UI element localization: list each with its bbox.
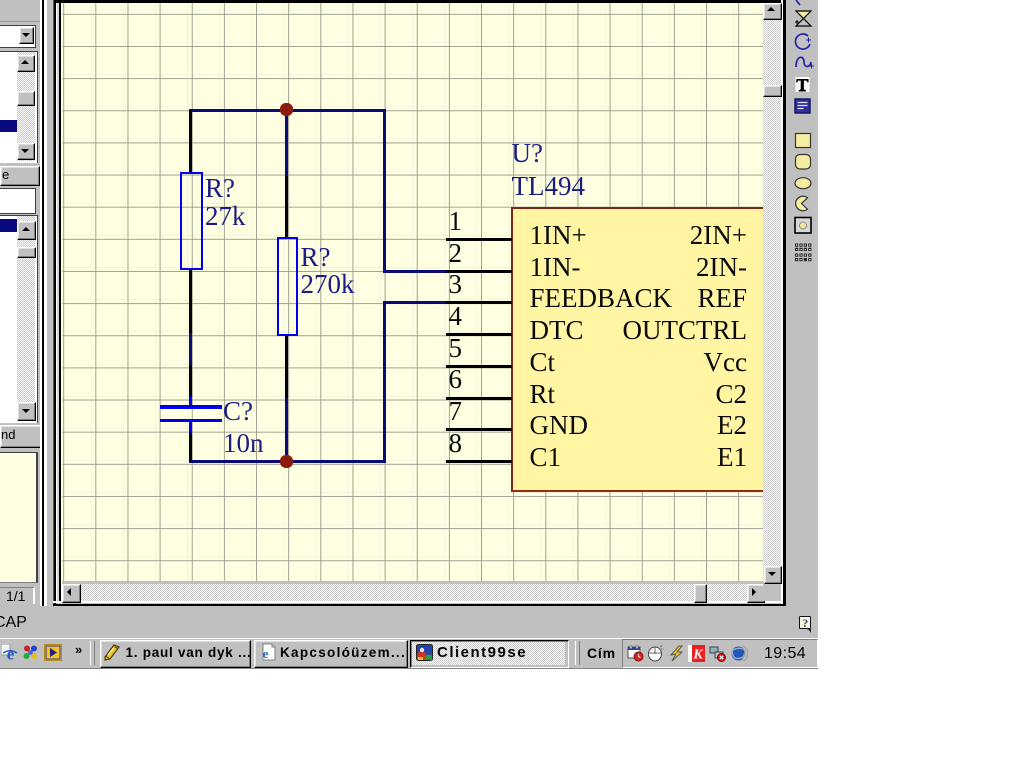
U? pin number 1 (449, 208, 463, 235)
resistor R? value 270k (301, 271, 355, 298)
capacitor C? value 10n (223, 430, 264, 457)
array tool icon (795, 244, 811, 262)
quick launch: messenger icon (22, 644, 39, 661)
U? pin name OUTCTRL (623, 317, 748, 344)
U? pin name 1IN- (530, 254, 581, 281)
U? pin number 3 (449, 271, 463, 298)
U? pin 4 (446, 333, 512, 336)
text tool icon (795, 77, 809, 92)
tray: scheduler icon (627, 645, 644, 662)
IC U? designator (512, 140, 543, 167)
resistor R? value 27k (205, 203, 246, 230)
U? pin name Ct (530, 349, 556, 376)
U? pin 2 (446, 270, 512, 273)
wire bottom horizontal net (189, 460, 386, 463)
wire right vertical lower (383, 301, 386, 462)
svg-text:e: e (263, 646, 269, 661)
quick launch: IE icon (1, 644, 18, 661)
resistor R? (27k) pin top (189, 110, 192, 173)
U? pin name Vcc (704, 349, 747, 376)
U? pin 7 (446, 428, 512, 431)
task button 2 (254, 640, 408, 669)
quick launch: media player icon (44, 644, 62, 661)
capacitor C? stub top (189, 396, 192, 407)
wire to pin3 (383, 301, 447, 304)
U? pin name 2IN+ (690, 222, 747, 249)
tray: mouse icon (647, 645, 664, 662)
graphic tool icon (795, 218, 811, 234)
capacitor C? designator (223, 398, 253, 425)
wire right vertical upper (383, 109, 386, 271)
rectangle tool icon (795, 134, 810, 148)
wire mid vertical lower (285, 396, 288, 462)
partial icon top (796, 0, 800, 5)
panel right 3d edge (40, 0, 42, 606)
button find (0, 425, 42, 448)
application area (0, 0, 818, 668)
tray clock (764, 645, 806, 663)
combobox drop button (19, 27, 34, 44)
wire left vertical mid (189, 332, 192, 366)
U? pin name E1 (717, 444, 747, 471)
task button 3 (active) (410, 640, 569, 669)
top black border (55, 0, 781, 3)
separator (90, 641, 95, 665)
resistor R? (270k) pin bottom (285, 335, 288, 398)
ellipse tool icon (795, 178, 811, 189)
U? pin name REF (697, 285, 747, 312)
curve tool icon (796, 57, 811, 67)
chevron (75, 642, 82, 657)
U? pin name FEEDBACK (530, 285, 673, 312)
svg-text:e: e (7, 645, 15, 662)
U? pin number 5 (449, 335, 463, 362)
capacitor C? (10n) pin bottom (189, 431, 192, 462)
resistor R? (27k) body (180, 172, 203, 270)
U? pin 6 (446, 397, 512, 400)
window bottom (53, 601, 783, 603)
1/1 cell (0, 587, 35, 604)
wire top horizontal net (189, 109, 385, 112)
U? pin name C2 (715, 381, 747, 408)
junction node bottom (280, 455, 293, 468)
window right border (781, 0, 783, 606)
resistor R? (270k) body (277, 237, 298, 336)
list 1 (0, 51, 38, 163)
bezier tool icon (796, 11, 811, 19)
U? pin name DTC (530, 317, 584, 344)
U? pin number 2 (449, 240, 463, 267)
resistor R? (27k) designator (205, 175, 235, 202)
wire mid vertical upper (285, 109, 288, 177)
task button 1 (100, 640, 251, 669)
U? pin name 1IN+ (530, 222, 587, 249)
U? pin name GND (530, 412, 589, 439)
resistor R? (27k) pin bottom (189, 269, 192, 333)
combobox field (0, 25, 36, 48)
tray: globe icon (730, 645, 748, 662)
arc tool icon (795, 34, 810, 49)
capacitor C? stub bottom (189, 422, 192, 433)
U? pin number 7 (449, 398, 463, 425)
U? pin number 6 (449, 366, 463, 393)
resistor R? (270k) designator (301, 244, 331, 271)
U? pin 3 (446, 301, 512, 304)
wire to pin2 (383, 270, 447, 273)
preview pane (0, 452, 38, 583)
button e (0, 166, 40, 186)
resistor R? (270k) pin top (285, 176, 288, 238)
round rectangle tool icon (795, 155, 810, 170)
tray: network offline icon (709, 645, 727, 662)
U? pin 1 (446, 238, 512, 241)
pie tool icon (795, 196, 807, 211)
U? pin number 8 (449, 430, 463, 457)
capacitor C? plate top (160, 405, 222, 409)
U? pin 8 (446, 460, 512, 463)
help icon (799, 616, 811, 629)
capacitor C? (10n) pin top (189, 365, 192, 397)
tray: lightning icon (668, 645, 686, 662)
junction node top (280, 103, 293, 116)
IC U? value TL494 (512, 173, 586, 200)
system tray (622, 639, 818, 668)
tray: kaspersky icon (688, 645, 705, 662)
Cim label (587, 645, 616, 661)
svg-text:K: K (692, 647, 704, 662)
U? pin name E2 (717, 412, 747, 439)
list 2 (0, 215, 38, 423)
IC U? TL494 body (511, 207, 762, 492)
edit box (0, 188, 36, 214)
text frame tool icon (795, 99, 810, 113)
U? pin name Rt (530, 381, 556, 408)
U? pin name 2IN- (696, 254, 747, 281)
separator before Cim (575, 641, 580, 665)
U? pin name C1 (530, 444, 562, 471)
U? pin 5 (446, 365, 512, 368)
capacitor C? plate bottom (160, 419, 222, 423)
U? pin number 4 (449, 303, 463, 330)
